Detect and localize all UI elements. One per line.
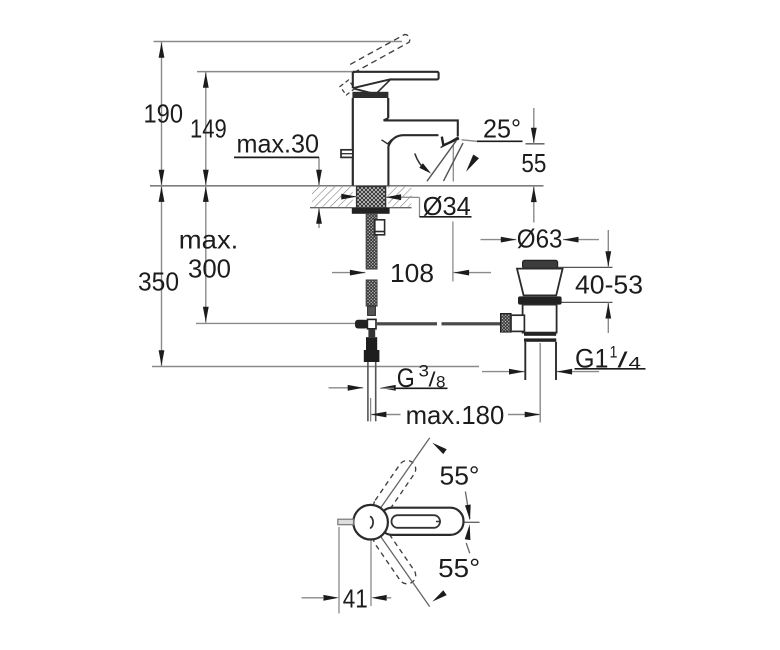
svg-text:1: 1: [610, 343, 618, 362]
svg-text:3: 3: [419, 362, 430, 381]
svg-text:Ø34: Ø34: [423, 191, 471, 221]
svg-text:149: 149: [190, 113, 227, 143]
svg-text:8: 8: [436, 373, 446, 392]
svg-text:40-53: 40-53: [575, 270, 643, 300]
svg-text:Ø63: Ø63: [517, 224, 563, 254]
svg-text:25°: 25°: [483, 114, 521, 144]
svg-text:55°: 55°: [438, 553, 480, 583]
svg-text:300: 300: [188, 254, 231, 284]
svg-text:350: 350: [138, 267, 179, 297]
svg-text:108: 108: [390, 258, 434, 288]
svg-text:max.180: max.180: [406, 400, 505, 430]
svg-text:41: 41: [343, 584, 368, 614]
svg-text:4: 4: [629, 354, 642, 373]
svg-text:55: 55: [521, 148, 546, 178]
svg-text:max.30: max.30: [237, 129, 320, 159]
svg-text:/: /: [429, 370, 437, 392]
svg-text:G: G: [397, 363, 415, 393]
svg-text:55°: 55°: [440, 461, 480, 491]
svg-text:G1: G1: [575, 344, 609, 374]
svg-text:190: 190: [144, 99, 184, 129]
svg-text:/: /: [618, 348, 629, 373]
svg-text:max.: max.: [179, 225, 239, 255]
